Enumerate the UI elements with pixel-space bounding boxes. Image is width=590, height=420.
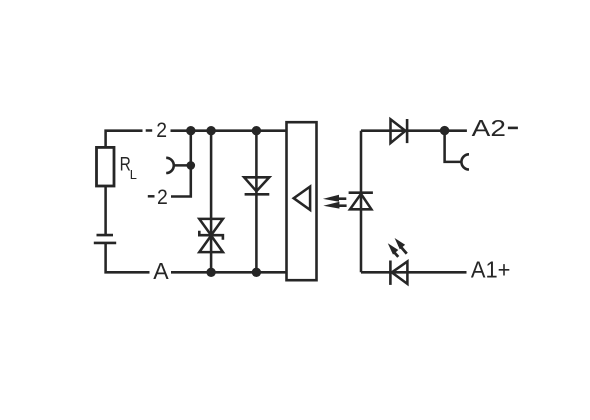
TVS suppressor diode (bidirectional) xyxy=(199,219,223,252)
wire: TVS branch vertical xyxy=(210,131,213,273)
light arrows into receiver xyxy=(323,195,347,209)
output stage box U1 xyxy=(287,122,317,280)
diode D2 (series protection, cathode right) xyxy=(391,119,408,143)
wire: top bus from -2 label to output box xyxy=(171,129,287,132)
amplifier triangle inside U1 xyxy=(294,187,310,210)
capacitor C1 xyxy=(97,234,114,237)
svg-text:A2: A2 xyxy=(472,115,506,141)
label -2 (second terminal) xyxy=(148,195,155,198)
svg-text:2: 2 xyxy=(157,185,168,209)
wire: clamp branch vertical down to second -2 stub xyxy=(171,131,191,197)
resistor R1 (R_L) xyxy=(97,147,115,186)
diode D1 (clamping diode, cathode down) xyxy=(244,177,269,194)
indicator LED D3 (cathode left) xyxy=(390,261,407,285)
wire: LED branch vertical (emitter side) xyxy=(360,131,363,273)
junction dot: clamp branch xyxy=(187,161,196,170)
svg-text:2: 2 xyxy=(156,118,167,142)
svg-text:A1+: A1+ xyxy=(471,256,511,282)
wire: diode branch vertical xyxy=(255,131,258,273)
junction dot: A2 node xyxy=(440,126,449,135)
wire: -2 terminal to R_L top lead xyxy=(106,131,143,149)
wire: clamp contact to junction xyxy=(175,164,191,167)
svg-text:A: A xyxy=(153,258,169,284)
junction dot: top bus / diode branch xyxy=(252,126,261,135)
junction dot: bottom bus / TVS branch xyxy=(206,268,215,277)
wire: bottom right from LED branch to A1+ xyxy=(361,271,467,274)
LED emission arrows xyxy=(388,238,408,258)
wire: top right from LED branch to A2- xyxy=(361,129,467,132)
clamp contact symbol (right) xyxy=(461,154,469,169)
junction dot: top bus / TVS branch xyxy=(206,126,215,135)
wire: bottom bus from A label to output box xyxy=(171,271,287,274)
wire: A2 clamp branch xyxy=(445,131,462,162)
clamp contact symbol (left) xyxy=(166,158,174,173)
wire: capacitor to A terminal (bottom left) xyxy=(106,244,150,272)
optocoupler LED (emitting left into U1), cathode up xyxy=(349,193,373,210)
label -2 (top terminal) xyxy=(146,129,153,132)
junction dot: bottom bus / diode branch xyxy=(252,268,261,277)
wire: R_L bottom lead to capacitor xyxy=(104,186,107,234)
junction dot: top bus / clamp branch xyxy=(186,126,195,135)
svg-text:L: L xyxy=(130,167,137,182)
